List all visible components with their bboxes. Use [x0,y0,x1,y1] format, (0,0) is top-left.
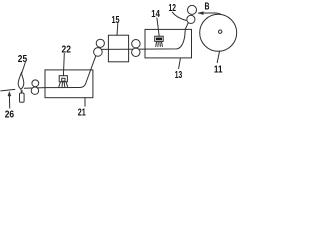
svg-text:22: 22 [62,44,72,56]
svg-text:14: 14 [151,8,160,20]
svg-text:11: 11 [214,64,223,76]
svg-text:15: 15 [112,14,120,26]
svg-text:26: 26 [5,109,15,120]
svg-text:13: 13 [175,69,182,81]
svg-text:21: 21 [78,106,86,118]
svg-text:B: B [205,0,210,12]
svg-text:12: 12 [169,2,177,14]
svg-text:25: 25 [18,53,27,65]
